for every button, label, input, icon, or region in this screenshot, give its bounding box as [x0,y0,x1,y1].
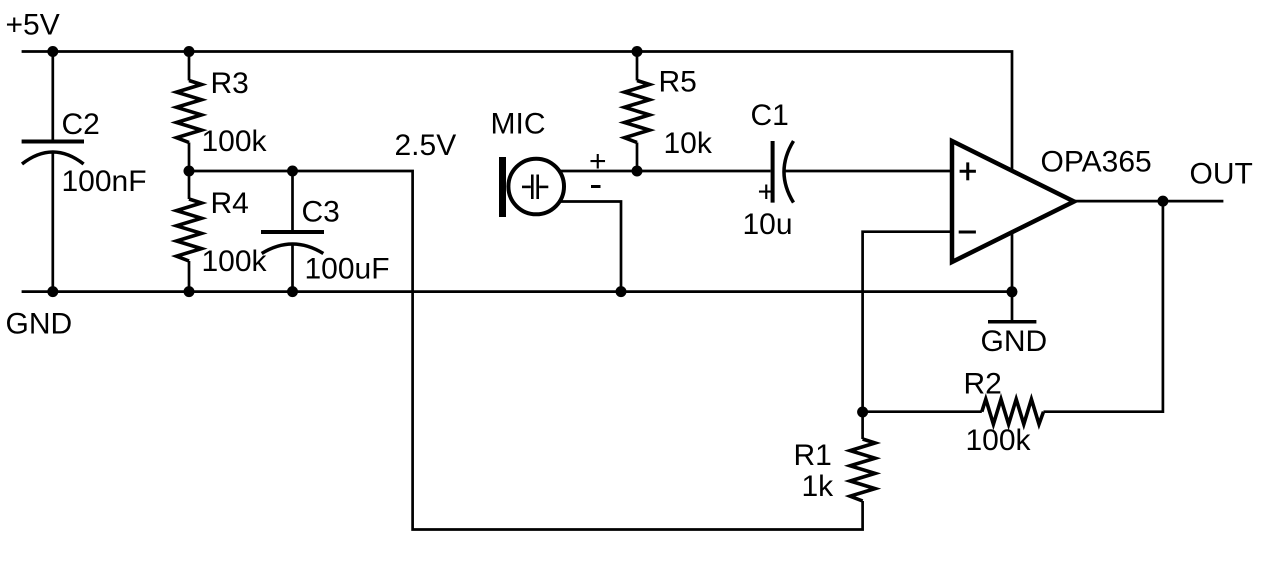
microphone element left plate [531,175,534,200]
wire C3 bottom lead [291,244,294,292]
microphone element right plate [536,175,539,200]
node dot feedback node junction [857,407,868,418]
node dot top-left rail junction [47,46,58,57]
node dot output junction [1157,196,1168,207]
svg-text:OUT: OUT [1190,158,1253,191]
wire op-amp output [1074,200,1223,203]
wire C3 top lead [291,171,294,230]
capacitor C3 top plate [261,230,324,234]
svg-text:100k: 100k [202,125,268,158]
node dot op-amp ground junction [1007,286,1018,297]
svg-text:100k: 100k [966,424,1032,457]
node dot R4 bottom junction [184,286,195,297]
svg-text:MIC: MIC [491,108,546,141]
op-amp plus input marker [960,162,976,180]
capacitor C3 curved plate [262,244,324,254]
svg-text:R1: R1 [794,439,832,472]
wire feedback node to R2 left [863,410,982,413]
node dot R5 top junction [632,46,643,57]
resistor R2 zigzag [982,399,1044,424]
wire R4 bottom stub [188,261,191,292]
wire mic minus to ground rail [536,202,621,292]
capacitor C1 curved plate [784,141,794,203]
svg-text:100uF: 100uF [305,253,390,286]
wire mid rail 2.5V node from R3/R4 junction to corner [189,171,863,530]
capacitor C1 left plate [771,141,775,203]
node dot R3 top junction [184,46,195,57]
microphone circle MIC [508,159,564,215]
label mic minus [591,185,601,188]
wire R3 top stub [188,52,191,81]
svg-text:100k: 100k [202,245,268,278]
microphone element right lead [539,186,548,189]
wire left vertical C2 bottom lead [51,152,54,292]
svg-text:GND: GND [6,308,73,341]
wire R5 bottom stub [636,143,639,172]
node dot mic minus ground junction [616,286,627,297]
wire R1 top stub to feedback node [861,412,864,439]
svg-text:100nF: 100nF [62,165,147,198]
svg-text:C1: C1 [751,99,789,132]
svg-text:R3: R3 [211,67,249,100]
svg-text:C2: C2 [62,108,100,141]
svg-text:1k: 1k [802,470,835,503]
wire op-amp GND stub [1011,292,1014,320]
wire feedback node up to inverting input [863,232,951,412]
resistor R1 zigzag [850,439,875,501]
microphone body bar [499,157,506,217]
op-amp minus input marker [959,231,976,234]
capacitor C2 top plate [22,140,84,144]
op-amp U1 triangle OPA365 [952,141,1074,262]
resistor R4 zigzag [177,199,202,261]
svg-text:+5V: +5V [6,9,60,42]
node dot C3 top junction [287,166,298,177]
node dot bottom-left rail junction [47,286,58,297]
wire output feedback down to R2 right [1044,201,1163,412]
wire mic plus output to C1 left plate [536,170,771,173]
wire left vertical C2 top lead [51,52,54,142]
svg-text:R4: R4 [211,187,249,220]
svg-text:2.5V: 2.5V [395,129,457,162]
microphone element left lead [522,186,531,189]
wire R3 bottom stub [188,143,191,172]
svg-text:+: + [589,145,607,178]
wire R4 top stub [188,171,191,199]
wire top +5V rail [22,52,1012,293]
wire R5 top stub [636,52,639,81]
svg-text:R5: R5 [659,66,697,99]
svg-text:10k: 10k [664,127,713,160]
node dot R3/R4 midpoint junction [184,166,195,177]
capacitor C2 curved plate [22,152,84,164]
ground symbol bar at op-amp [988,320,1036,324]
node dot C3 bottom junction [287,286,298,297]
node dot mic plus / R5 junction [632,166,643,177]
svg-text:R2: R2 [964,368,1002,401]
svg-text:+: + [758,176,776,209]
svg-text:C3: C3 [302,196,340,229]
svg-text:OPA365: OPA365 [1041,146,1152,179]
wire bottom GND rail [22,290,1012,293]
svg-text:10u: 10u [743,208,793,241]
resistor R3 zigzag [177,81,202,143]
resistor R5 zigzag [625,81,650,143]
svg-text:GND: GND [981,325,1048,358]
wire C1 right plate to non-inverting input [784,170,951,173]
